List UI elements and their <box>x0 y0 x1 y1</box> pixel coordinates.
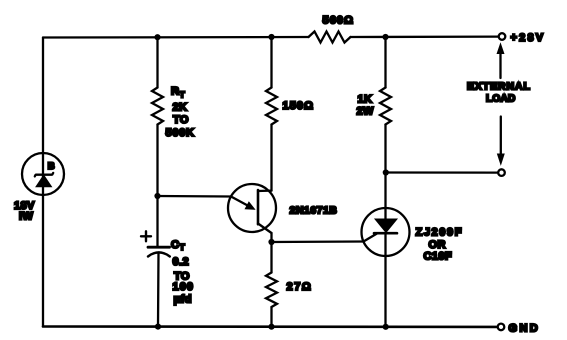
value label R_T 2K TO 500K <box>166 86 195 140</box>
label 2N1671B <box>290 205 338 217</box>
SCR CR1 cathode bar <box>374 232 397 235</box>
svg-text:C10F: C10F <box>424 251 453 263</box>
svg-text:LOAD: LOAD <box>486 93 516 104</box>
wire load tap <box>386 171 498 173</box>
svg-text:0.2: 0.2 <box>173 256 190 268</box>
wire emitter from node to UJT <box>158 195 232 198</box>
svg-text:560Ω: 560Ω <box>323 15 355 27</box>
svg-text:+28V: +28V <box>511 32 546 44</box>
wire C_T branch lower <box>157 253 160 327</box>
wire 27 ohm to bottom rail <box>270 307 272 327</box>
wire 1K branch upper <box>384 37 386 88</box>
value label 1K 2W <box>357 94 375 118</box>
value label 150 ohm <box>283 100 315 112</box>
pin label B <box>48 161 55 172</box>
wire SCR cathode to bottom rail <box>384 233 386 327</box>
svg-text:IW: IW <box>19 211 33 223</box>
svg-text:GND: GND <box>509 323 541 335</box>
wire 150 ohm branch upper <box>270 37 272 88</box>
capacitor C_T top plate <box>148 246 170 249</box>
value label 18V 1W <box>14 200 35 223</box>
node junction bottom 27 ohm <box>268 324 274 330</box>
svg-text:2N1671B: 2N1671B <box>290 205 338 217</box>
svg-text:T: T <box>180 90 186 100</box>
svg-text:150Ω: 150Ω <box>283 100 315 112</box>
svg-text:TO: TO <box>173 114 189 126</box>
wire SCR anode <box>384 173 386 220</box>
SCR CR1 circle <box>362 208 410 256</box>
node junction base-1 / gate <box>268 239 274 245</box>
resistor 150 ohm <box>266 88 277 125</box>
node junction anode / load <box>383 169 389 175</box>
label +28V <box>511 32 546 44</box>
svg-text:100: 100 <box>173 281 195 293</box>
svg-text:OR: OR <box>429 239 446 251</box>
svg-text:27Ω: 27Ω <box>287 281 313 293</box>
capacitor C_T curved plate <box>148 252 170 256</box>
resistor 560 ohm (horizontal, top rail) <box>309 32 351 43</box>
svg-text:R: R <box>171 86 179 98</box>
capacitor C_T plus sign <box>141 231 151 241</box>
transistor Q1 base-2 lead <box>258 189 272 192</box>
terminal GND <box>498 324 505 331</box>
wire R_T branch upper <box>156 37 158 88</box>
node junction R_T / C_T / emitter <box>154 193 160 199</box>
wire C_T branch upper <box>156 196 158 246</box>
wire 150 ohm branch lower <box>270 125 272 191</box>
wire gate from base-1 node <box>272 240 364 243</box>
wire base-1 down to 27 ohm <box>270 233 272 273</box>
terminal +28V <box>499 33 506 40</box>
svg-text:1K: 1K <box>358 94 373 106</box>
node junction bottom SCR <box>383 324 389 330</box>
transistor Q1 emitter arrow <box>231 197 255 210</box>
label ZJ209F OR C10F <box>416 227 464 263</box>
resistor 27 ohm <box>266 273 277 308</box>
svg-text:2K: 2K <box>173 102 188 114</box>
wire top rail left segment <box>43 36 309 39</box>
terminal external load lower <box>498 169 505 176</box>
wire R_T branch lower <box>156 125 158 197</box>
svg-text:C: C <box>171 239 179 251</box>
transistor Q1 base-1 lead <box>258 224 272 234</box>
label EXTERNAL LOAD <box>467 81 531 105</box>
resistor R_T <box>152 88 163 125</box>
svg-text:B: B <box>48 161 55 172</box>
svg-text:EXTERNAL: EXTERNAL <box>467 81 531 93</box>
SCR CR1 triangle <box>375 219 397 233</box>
value label 560 ohm <box>323 15 355 27</box>
value label 27 ohm <box>287 281 313 293</box>
wire bottom rail <box>43 325 498 328</box>
svg-text:2W: 2W <box>357 106 375 118</box>
node junction bottom C_T <box>155 324 161 330</box>
SCR CR1 gate lead inside <box>364 234 378 242</box>
resistor 1K 2W <box>380 88 391 125</box>
node junction top 1K <box>382 34 388 40</box>
svg-text:T: T <box>180 242 186 252</box>
transistor Q1 2N1671B circle <box>228 184 276 232</box>
wire left rail <box>42 38 44 327</box>
node junction top 150 ohm <box>268 34 274 40</box>
value label C_T 0.2 TO 100 ufd <box>171 239 194 306</box>
wire 1K branch lower <box>384 125 386 173</box>
zener diode D1 triangle <box>36 175 52 187</box>
wire top rail right segment <box>351 35 499 38</box>
node junction top R_T <box>154 34 160 40</box>
arrow down external load <box>498 117 505 165</box>
arrow up external load <box>497 44 504 78</box>
label GND <box>509 323 541 335</box>
svg-text:μfd: μfd <box>174 294 192 306</box>
transistor Q1 base bar <box>257 190 260 224</box>
zener diode D1 cathode bar <box>35 173 53 177</box>
zener diode D1 circle <box>22 153 64 195</box>
svg-text:500K: 500K <box>166 127 195 139</box>
svg-text:ZJ209F: ZJ209F <box>416 227 464 239</box>
